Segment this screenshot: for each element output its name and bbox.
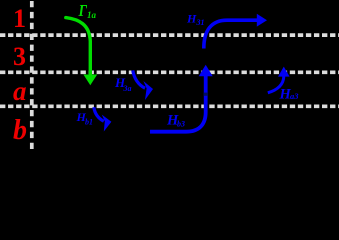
horizontal dashed line 3 (boundary rows a/b) [0,104,339,108]
decay arrow Gamma_1a (green curved arrow from row 1 down into row a) [66,18,91,76]
svg-text:1: 1 [13,4,26,33]
svg-text:H: H [186,12,197,26]
level/matrix diagram figure [0,0,339,152]
svg-text:b3: b3 [177,120,185,129]
arrow H_31 (blue, from row 3 up then right into row 1) [204,20,259,48]
arrow H_a3 (blue, right side: from row a curving up to line 2) [268,76,284,92]
svg-text:a3: a3 [290,91,299,101]
horizontal dashed line 2 (boundary rows 3/a) [0,70,339,74]
svg-text:b: b [13,115,27,146]
svg-text:a: a [13,76,27,106]
arrow H_b1 (blue, bottom-left: from line 3 curving down-right into row b) [94,107,104,121]
svg-text:3a: 3a [123,84,132,93]
dark notch on H_b3 vertical segment [204,93,208,96]
svg-text:1a: 1a [87,10,97,20]
horizontal dashed line 1 (boundary rows 1/3) [0,33,339,37]
svg-text:3: 3 [13,42,26,71]
vertical dashed line [30,1,34,152]
arrow H_3a (blue, middle: from line 2 curving down-right into row a) [133,70,145,88]
svg-text:31: 31 [196,18,205,27]
svg-text:b1: b1 [85,118,93,127]
arrow H_b3 (blue, long: from row b right then up to line 2) [150,76,206,132]
